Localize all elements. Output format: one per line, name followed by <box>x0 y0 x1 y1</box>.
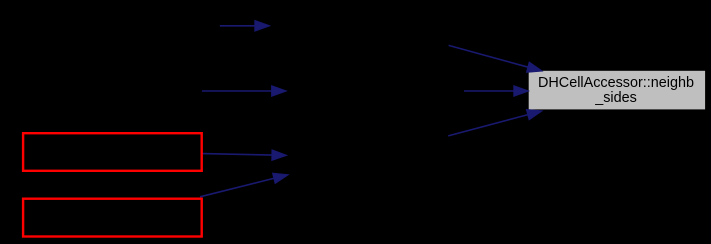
edge arrow E (into grey node top-left, descending) <box>449 45 543 72</box>
edge arrow B (second row horizontal, hidden caller to hidden node) <box>202 85 287 96</box>
edge arrow A (top-left horizontal, hidden caller to hidden node) <box>220 20 270 31</box>
edge arrow F (into grey node left edge, horizontal) <box>464 85 529 96</box>
edge arrow G (into grey node bottom-left, ascending) <box>448 109 542 136</box>
grey node box DHCellAccessor::neighb_sides <box>529 71 705 110</box>
red box node 2 (truncated caller node) <box>23 199 202 237</box>
svg-text:DHCellAccessor::neighb: DHCellAccessor::neighb <box>538 75 694 91</box>
red box node 1 (truncated caller node) <box>23 133 202 171</box>
edge arrow C (from red box 1 to hidden node) <box>202 150 287 161</box>
edge arrow D (from red box 2 to hidden node) <box>200 173 289 197</box>
svg-text:_sides: _sides <box>594 90 637 106</box>
